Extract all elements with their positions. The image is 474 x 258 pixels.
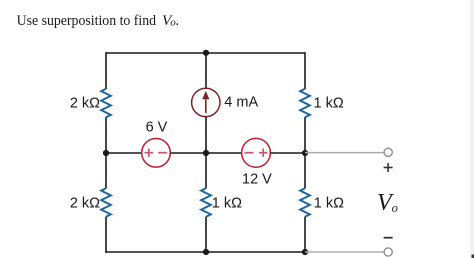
wire: middle branch from center node to 1k resistor [205,153,207,189]
title: Use superposition to find Vo. [17,12,180,29]
node: middle-left junction [103,150,109,156]
svg-text:12 V: 12 V [242,171,272,187]
wire: gray lead from bottom-right node to lower output terminal [305,251,384,253]
resistor 1 kOhm (bottom-right) [300,188,310,217]
svg-text:2 kΩ: 2 kΩ [70,96,100,112]
wire: middle branch stub from top rail to current source [205,53,207,89]
svg-text:1 kΩ: 1 kΩ [314,195,344,211]
wire: bottom rail left segment [105,251,206,253]
wire: left branch upper stub (top rail down to 2k resistor) [105,52,107,89]
svg-text:.: . [175,12,179,29]
wire: middle branch from current source to center node [205,116,207,153]
node: middle-right junction [302,150,308,156]
wire: top rail right segment (top-middle node to top-right corner) [206,52,305,54]
scrollbar corner square bottom-right [472,255,474,258]
terminal: upper output (open circle) [384,148,392,156]
wire: middle branch lower stub to bottom rail [205,217,207,252]
wire: left branch lower stub to bottom-left corner [105,217,107,253]
voltage source 6 V minus mark (right) [158,152,167,154]
resistor 1 kOhm (top-right) [300,89,310,118]
resistor 1 kOhm (bottom-middle) [201,188,211,217]
svg-text:4 mA: 4 mA [224,95,258,111]
svg-text:1 kΩ: 1 kΩ [212,195,242,211]
label: minus polarity mark at lower terminal [384,237,393,239]
voltage source 6 V (circle) [142,139,171,168]
node: bottom-middle junction [203,249,209,255]
wire: right branch stub from top-right corner to 1k resistor [304,52,306,89]
svg-text:6 V: 6 V [146,119,168,135]
wire: right branch lower stub to bottom-right node [304,217,306,252]
scrollbar track at right edge [470,0,474,258]
voltage source 6 V plus mark (left) [145,149,153,157]
resistor 2 kOhm (top-left) [101,89,111,118]
svg-text:2 kΩ: 2 kΩ [70,195,100,211]
terminal: lower output (open circle) [384,248,392,256]
node: center junction [203,150,209,156]
wire: gray lead from middle-right node to upper output terminal [305,152,384,154]
voltage source 12 V (circle) [242,138,271,167]
wire: middle row from 12V source to middle-right node [270,152,305,154]
current source 4 mA arrow (points up) [202,91,209,113]
wire: right branch from 1k resistor to middle-right node [304,117,306,153]
node: top-middle junction [203,50,209,56]
wire: middle row from middle-left node to 6V source [106,152,142,154]
voltage source 12 V minus mark (left) [245,152,254,154]
wire: left branch from 2k resistor to middle-left node [105,117,107,153]
current source 4 mA (circle) [192,88,220,116]
svg-text:1 kΩ: 1 kΩ [314,96,344,112]
wire: right branch from middle-right node to lower 1k resistor [304,153,306,189]
svg-text:Use superposition to find: Use superposition to find [17,12,157,29]
wire: middle row from 6V source to center node [170,152,206,154]
wire: top rail left segment (top-left corner to top-middle node) [106,52,206,54]
voltage source 12 V plus mark (right) [259,149,267,157]
svg-text:Vo: Vo [377,190,398,216]
node: bottom-right junction [302,249,308,255]
wire: bottom rail right segment [206,251,305,253]
wire: left branch from middle-left node down to lower 2k resistor [105,153,107,189]
resistor 2 kOhm (bottom-left) [101,188,111,217]
wire: middle row from center node to 12V source [206,152,242,154]
label: plus polarity mark at upper terminal [384,163,393,172]
